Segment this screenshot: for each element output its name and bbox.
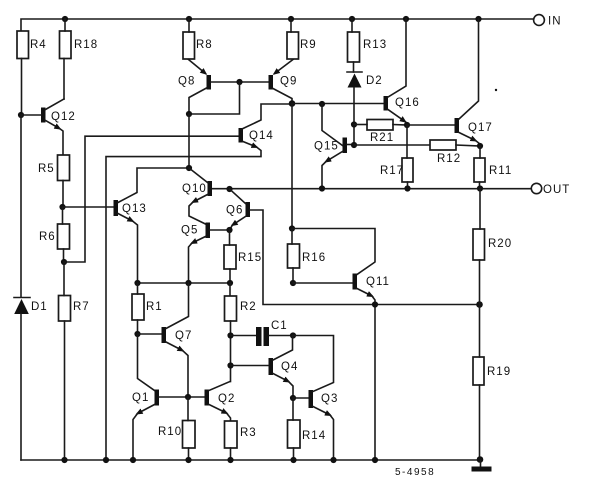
svg-text:R4: R4: [30, 39, 47, 51]
node OUT-R11-R20: [477, 185, 483, 191]
wire R15 top lead: [229, 230, 231, 245]
node rail-Q17: [475, 16, 481, 22]
resistor R19: [473, 357, 511, 385]
resistor R4: [17, 31, 47, 59]
node R1 top: [134, 280, 140, 286]
svg-text:D2: D2: [366, 75, 383, 87]
wire R13 bottom lead: [353, 62, 355, 72]
wire R7 top lead: [63, 262, 65, 296]
node Q4 base: [227, 362, 233, 368]
wire ground stub: [480, 460, 482, 467]
svg-text:R11: R11: [489, 165, 512, 177]
node Q5 emitter / Q7 collector: [185, 280, 191, 286]
node Q10 base / Q6 collector: [226, 186, 232, 192]
wire R17 top lead: [406, 125, 408, 158]
wire R17 bottom lead: [407, 182, 409, 189]
svg-text:Q17: Q17: [468, 122, 493, 134]
wire R19 bottom lead: [479, 385, 481, 460]
node Q8 collector tie: [186, 111, 192, 117]
node R20-R19 junction: [476, 301, 483, 308]
transistor Q10: [182, 168, 212, 224]
resistor R7: [59, 296, 90, 322]
svg-text:R17: R17: [380, 165, 404, 177]
svg-text:Q1: Q1: [132, 392, 149, 404]
node mirror base: [185, 394, 191, 400]
wire Q13 base line: [63, 206, 114, 208]
svg-text:R12: R12: [437, 153, 461, 165]
wire R1 top lead: [137, 283, 139, 294]
transistor Q17: [455, 19, 493, 146]
wire R3 bottom lead: [230, 448, 232, 460]
svg-text:C1: C1: [271, 320, 288, 332]
wire R19 top lead: [479, 305, 481, 358]
svg-text:Q12: Q12: [51, 111, 76, 123]
wire R8 bottom to Q8 emitter: [189, 60, 206, 74]
wire R7 bottom lead: [64, 321, 66, 460]
transistor Q6: [226, 189, 250, 230]
svg-text:Q10: Q10: [182, 183, 207, 195]
node R5-R6 junction: [59, 204, 65, 210]
transistor Q3: [293, 336, 338, 461]
node rail-R14: [290, 457, 296, 463]
wire R9 bottom to Q9 emitter: [275, 60, 294, 74]
node rail-Q11 emitter: [372, 457, 378, 463]
wire OUT line: [212, 188, 532, 190]
resistor R12: [430, 140, 461, 165]
node rail-R18: [62, 16, 68, 22]
wire R16 bottom lead: [292, 268, 294, 283]
node Q15 base tap: [319, 101, 325, 107]
wire base tie down to Q8 collector: [189, 82, 240, 114]
node R21 left: [351, 121, 357, 127]
diode D1: [14, 298, 48, 315]
svg-text:R15: R15: [238, 252, 262, 264]
svg-text:R18: R18: [74, 39, 98, 51]
wire Q14 base routing: [64, 136, 239, 262]
resistor R11: [474, 158, 512, 182]
resistor R2: [225, 296, 257, 321]
node R1 bottom / Q7 base: [134, 331, 140, 337]
svg-text:R8: R8: [196, 39, 213, 51]
wire error node column to R16: [291, 104, 293, 229]
svg-text:R1: R1: [146, 301, 163, 313]
wire Q1 collector riser: [138, 334, 155, 391]
node C1 left: [227, 332, 233, 338]
wire Q1-Q2 base tie: [159, 396, 205, 398]
wire Q11 collector routing: [292, 229, 375, 275]
resistor R6: [39, 224, 70, 249]
node rail-ground: [477, 456, 484, 463]
node Q9 collector: [289, 100, 296, 107]
node Q12 base: [18, 112, 24, 118]
wire R18 bottom to Q12 collector: [63, 59, 65, 100]
wire R18 top lead: [64, 19, 66, 31]
wire D2 anode column: [353, 88, 355, 146]
wire R13 top lead: [351, 19, 353, 32]
stray ink dot: [495, 89, 497, 91]
transistor Q12: [41, 99, 76, 155]
svg-text:R9: R9: [300, 39, 317, 51]
svg-text:R14: R14: [302, 430, 326, 442]
wire R20 top lead: [479, 189, 481, 230]
transistor Q15: [314, 104, 354, 189]
svg-text:Q15: Q15: [314, 141, 339, 153]
wire R21 left lead: [354, 124, 367, 126]
svg-text:Q16: Q16: [395, 97, 420, 109]
transistor Q13: [114, 168, 189, 283]
node rail-R7: [61, 457, 67, 463]
wire R20 bottom lead: [479, 260, 481, 305]
transistor Q2: [205, 382, 236, 422]
resistor R18: [60, 31, 99, 59]
wire R11 top lead: [479, 146, 481, 158]
node rail-Q3 emitter: [330, 457, 336, 463]
node Q11 emitter divider tap: [372, 301, 378, 307]
svg-text:R5: R5: [38, 163, 55, 175]
wire Q8 collector column: [188, 114, 190, 168]
resistor R17: [380, 158, 413, 182]
resistor R8: [183, 32, 213, 59]
resistor R15: [224, 245, 262, 269]
figure number 5-4958: [395, 467, 435, 478]
resistor R16: [288, 244, 327, 268]
wire R6 bottom lead: [63, 249, 65, 262]
svg-text:R13: R13: [363, 39, 387, 51]
wire R10 top lead: [187, 397, 189, 421]
node rail-Q16: [403, 16, 409, 22]
svg-text:R20: R20: [488, 238, 512, 250]
wire R1 bottom lead: [137, 320, 139, 334]
terminal IN: [534, 15, 562, 28]
wire R14 top lead: [292, 398, 294, 420]
wire D1 anode to ground rail: [20, 314, 22, 460]
wire ground rail: [21, 459, 481, 461]
wire top supply rail: [21, 19, 534, 31]
svg-text:Q6: Q6: [226, 205, 243, 217]
node R16 bottom: [290, 280, 296, 286]
resistor R5: [38, 155, 70, 181]
node OUT-Q15 emitter: [319, 185, 325, 191]
wire R6 top lead: [62, 207, 64, 224]
resistor R9: [287, 32, 317, 59]
wire R2 bottom column: [230, 321, 232, 382]
wire R11 bottom lead: [479, 182, 481, 189]
wire Q8-Q9 base tie: [211, 81, 269, 83]
svg-text:Q11: Q11: [366, 276, 390, 288]
svg-text:Q13: Q13: [122, 203, 147, 215]
svg-text:Q2: Q2: [218, 393, 235, 405]
wire Q11 base line: [293, 282, 353, 284]
svg-text:Q9: Q9: [280, 76, 297, 88]
resistor R13: [348, 32, 388, 62]
wire error node to Q16 base: [292, 103, 384, 105]
svg-text:R21: R21: [370, 132, 394, 144]
wire Q6 base feedback routing: [250, 210, 480, 305]
wire R8 top lead: [188, 19, 190, 32]
node OUT-R17: [404, 185, 410, 191]
transistor Q14: [106, 104, 292, 460]
node rail-R10: [185, 457, 191, 463]
wire R21 right lead: [393, 124, 407, 127]
node rail-R9: [288, 16, 294, 22]
node rail-Q14 emitter: [103, 457, 109, 463]
svg-text:Q5: Q5: [181, 225, 198, 237]
node Q17 emitter: [477, 143, 483, 149]
wire R4 bottom column: [21, 59, 23, 116]
resistor R10: [158, 421, 195, 449]
wire bias rail y283: [138, 282, 231, 284]
transistor Q8: [178, 75, 211, 114]
wire R9 top lead: [290, 19, 292, 32]
resistor R14: [288, 420, 327, 448]
wire R12 right lead: [456, 145, 480, 146]
transistor Q11: [353, 274, 390, 461]
resistor R21: [367, 120, 394, 145]
svg-text:5-4958: 5-4958: [395, 467, 435, 478]
resistor R20: [473, 229, 512, 260]
svg-text:D1: D1: [31, 301, 48, 313]
node rail-R8: [186, 16, 192, 22]
transistor Q7: [162, 283, 193, 397]
diode D2: [347, 72, 383, 88]
node rail-R3: [227, 457, 233, 463]
wire R5 bottom: [62, 181, 64, 208]
svg-text:Q8: Q8: [178, 76, 195, 88]
transistor Q5: [181, 223, 230, 284]
terminal OUT: [531, 183, 570, 196]
node Q4 emitter / Q3 base / R14 top: [290, 395, 296, 401]
wire Q15 collector to R12: [354, 144, 430, 146]
wire Q3 base line: [293, 397, 309, 399]
transistor Q16: [384, 19, 420, 125]
svg-text:R10: R10: [158, 426, 182, 438]
svg-text:R7: R7: [73, 301, 90, 313]
svg-text:R3: R3: [240, 427, 257, 439]
svg-text:Q4: Q4: [281, 361, 298, 373]
svg-text:OUT: OUT: [543, 184, 570, 196]
resistor R1: [132, 294, 163, 320]
svg-text:R2: R2: [240, 301, 257, 313]
node Q15 collector: [351, 142, 357, 148]
node R16 top: [289, 225, 295, 231]
wire R2 column: [229, 283, 231, 296]
wire R14 bottom lead: [293, 448, 295, 460]
svg-text:R6: R6: [39, 231, 56, 243]
node Q13-Q10 collector junction: [186, 165, 192, 171]
node rail-Q1 emitter: [130, 457, 136, 463]
resistor R3: [225, 421, 257, 448]
wire R15 bottom lead: [229, 269, 231, 283]
node Q8-Q9 base: [236, 79, 242, 85]
transistor Q1: [132, 390, 159, 461]
node C1 right: [290, 332, 296, 338]
wire Q17 base line: [407, 124, 455, 126]
svg-text:R16: R16: [302, 252, 326, 264]
transistor Q9: [269, 75, 298, 104]
transistor Q4: [231, 336, 299, 399]
svg-text:Q7: Q7: [175, 330, 192, 342]
svg-text:Q3: Q3: [321, 393, 338, 405]
node R15 bottom / R2 top: [227, 280, 233, 286]
svg-text:IN: IN: [548, 16, 562, 28]
wire R10 bottom lead: [188, 448, 190, 460]
wire Q12 base: [21, 114, 41, 116]
svg-text:Q14: Q14: [249, 130, 274, 142]
svg-text:R19: R19: [487, 366, 511, 378]
node Q5 base / R15 top: [226, 227, 232, 233]
node R6-R7 junction: [61, 259, 67, 265]
wire R16 top lead: [291, 229, 293, 245]
wire D1 column upper: [20, 115, 22, 297]
node Q16 emitter: [404, 122, 410, 128]
ground: [472, 467, 492, 472]
wire Q7 base line: [138, 333, 162, 335]
node rail-R13: [349, 16, 355, 22]
capacitor C1: [231, 320, 294, 346]
